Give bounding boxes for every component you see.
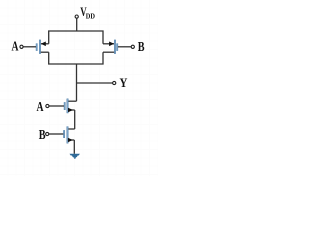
- Q4 gate lead: [49, 133, 64, 135]
- input terminal A (NMOS): [46, 104, 49, 107]
- Q1 drain lead: [41, 51, 49, 53]
- Q3 source lead: [68, 109, 74, 111]
- svg-text:B: B: [138, 39, 145, 54]
- Q3 drain lead: [68, 100, 76, 102]
- Q2 drain lead: [103, 51, 114, 53]
- wire output branch to Y: [77, 82, 113, 84]
- Q3 source arrow: [68, 108, 73, 113]
- Q1 source arrow: [41, 42, 46, 47]
- label VDD: [80, 5, 95, 20]
- svg-text:A: A: [37, 99, 44, 114]
- wire VDD stub: [76, 18, 78, 31]
- Q4 source arrow: [68, 138, 73, 143]
- ground symbol: [70, 154, 80, 159]
- Q3 gate lead: [49, 105, 64, 107]
- transistor Q1 (PMOS, input A, left): [23, 40, 49, 54]
- Q2 gate bar: [117, 44, 118, 51]
- input terminal B (NMOS): [46, 132, 49, 135]
- Q2 channel bar: [114, 40, 116, 54]
- transistor Q3 (NMOS, input A, top of stack): [49, 99, 77, 113]
- transistor Q2 (PMOS, input B, right): [103, 40, 131, 54]
- wire output node drop: [76, 64, 78, 101]
- Q2 source lead: [103, 43, 114, 45]
- Q2 source arrow: [109, 42, 114, 47]
- Q4 gate bar: [63, 130, 64, 137]
- svg-text:B: B: [39, 127, 46, 142]
- Q4 drain lead: [68, 128, 75, 130]
- input terminal B (PMOS): [131, 45, 134, 48]
- Q1 gate bar: [36, 44, 37, 51]
- svg-text:Y: Y: [120, 76, 128, 90]
- Q2 gate lead: [118, 46, 131, 48]
- Q3 gate bar: [64, 102, 65, 109]
- svg-text:DD: DD: [86, 12, 96, 21]
- Q1 gate lead: [23, 46, 36, 48]
- svg-text:A: A: [12, 38, 19, 53]
- wire top rail with drops to Q1 and Q2 sources: [49, 31, 103, 44]
- power terminal VDD circle: [75, 15, 78, 18]
- wire PMOS drain rail (Q1 drain to Q2 drain): [49, 52, 103, 64]
- Q3 channel bar: [67, 99, 69, 113]
- input terminal A (PMOS): [20, 45, 23, 48]
- wire Q3 source to Q4 drain: [74, 110, 76, 129]
- Q1 source lead: [41, 43, 49, 45]
- output terminal Y: [113, 81, 116, 84]
- Q1 channel bar: [39, 40, 41, 54]
- Q4 channel bar: [67, 127, 69, 144]
- wire Q4 source to ground: [73, 140, 75, 154]
- Q4 source lead: [68, 139, 74, 141]
- transistor Q4 (NMOS, input B, bottom of stack): [49, 127, 75, 144]
